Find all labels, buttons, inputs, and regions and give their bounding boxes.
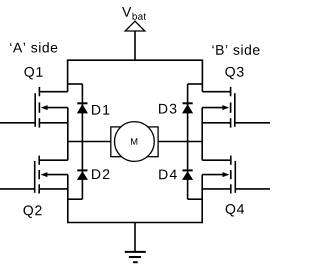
diode D3 label — [159, 104, 176, 114]
power supply symbol Vbat (open triangle) — [125, 21, 145, 31]
wire ground stem — [134, 223, 136, 252]
diode D3 (freewheel, cathode up) — [182, 84, 202, 142]
wire Vbat to top rail — [134, 31, 136, 60]
wire left column: Q1 source to Q2 drain (node A out) — [67, 108, 69, 161]
diode D4 label — [159, 170, 177, 180]
wire top rail — [67, 59, 203, 61]
diode D2 (freewheel, cathode up) — [68, 142, 88, 200]
transistor Q4 (NMOS, gate right) — [202, 156, 270, 194]
node 'A' side label — [10, 42, 57, 52]
motor M label — [131, 138, 137, 144]
transistor Q2 label — [23, 205, 41, 217]
transistor Q2 (NMOS, gate left) — [0, 156, 68, 194]
diode D1 label — [92, 105, 109, 115]
transistor Q4 label — [226, 204, 244, 216]
wire node A to motor — [68, 141, 111, 143]
transistor Q1 (NMOS, gate left) — [0, 87, 68, 128]
diode D2 label — [92, 169, 109, 179]
ground — [125, 252, 146, 262]
wire left column: Q2 source to ground bus — [67, 175, 69, 223]
node 'B' side label — [212, 45, 259, 55]
wire left column: rail to Q1 drain — [67, 60, 69, 92]
diode D1 (freewheel, cathode up) — [68, 84, 88, 142]
node Vbat label — [122, 7, 146, 20]
wire right column: Q3 source to Q4 drain (node B out) — [201, 108, 203, 161]
transistor Q3 (NMOS, gate right) — [202, 87, 270, 128]
wire right column: Q4 source to ground bus — [201, 175, 203, 223]
wire ground bus — [67, 222, 203, 224]
motor M (brush block) — [111, 127, 158, 157]
transistor Q1 label — [24, 67, 42, 79]
wire motor to node B — [158, 141, 202, 143]
motor M (body circle) — [114, 122, 154, 162]
diode D4 (freewheel, cathode up) — [182, 142, 202, 200]
wire right column: rail to Q3 drain — [201, 60, 203, 92]
transistor Q3 label — [225, 67, 243, 79]
